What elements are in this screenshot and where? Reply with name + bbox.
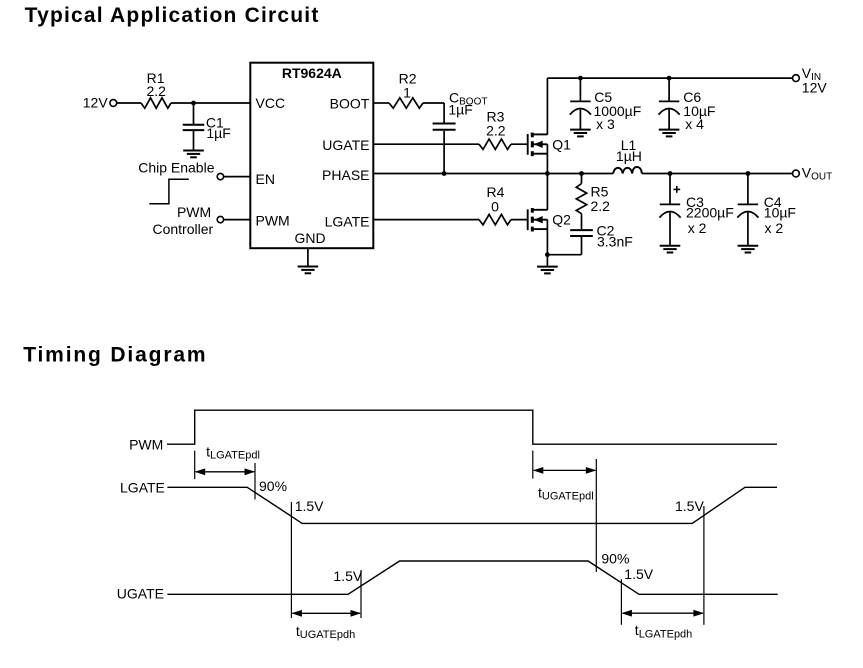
svg-text:2200µF: 2200µF [686,204,734,220]
svg-text:2.2: 2.2 [146,83,166,99]
svg-text:PWM: PWM [256,213,290,229]
svg-text:1.5V: 1.5V [295,498,324,514]
svg-text:1.5V: 1.5V [333,568,362,584]
svg-text:2.2: 2.2 [486,123,506,139]
svg-text:Q1: Q1 [552,136,571,152]
svg-text:1.5V: 1.5V [675,498,704,514]
svg-text:UGATE: UGATE [322,137,369,153]
svg-text:90%: 90% [601,550,629,566]
svg-text:2.2: 2.2 [591,198,611,214]
svg-text:PWM: PWM [129,437,163,453]
svg-text:1: 1 [403,85,411,101]
svg-text:10µF: 10µF [764,204,796,220]
svg-text:1µF: 1µF [206,125,230,141]
svg-text:1µF: 1µF [448,102,472,118]
svg-text:EN: EN [256,171,275,187]
svg-text:12V: 12V [83,95,109,111]
svg-text:RT9624A: RT9624A [282,65,342,81]
svg-text:Timing Diagram: Timing Diagram [23,343,207,366]
svg-text:0: 0 [491,198,499,214]
svg-text:x 2: x 2 [765,220,784,236]
svg-text:3.3nF: 3.3nF [597,234,633,250]
svg-text:PHASE: PHASE [322,167,369,183]
svg-text:Q2: Q2 [552,212,571,228]
svg-text:UGATE: UGATE [117,586,164,602]
svg-text:VCC: VCC [256,95,286,111]
svg-text:1.5V: 1.5V [624,566,653,582]
svg-text:12V: 12V [802,79,828,95]
svg-text:x 3: x 3 [596,116,615,132]
svg-text:LGATE: LGATE [325,214,370,230]
svg-text:x 2: x 2 [688,220,707,236]
svg-text:GND: GND [294,230,325,246]
svg-text:LGATE: LGATE [120,479,165,495]
svg-text:Chip Enable: Chip Enable [138,160,214,176]
svg-text:Controller: Controller [152,221,213,237]
svg-text:90%: 90% [259,478,287,494]
svg-text:x 4: x 4 [685,116,704,132]
svg-text:BOOT: BOOT [330,95,370,111]
svg-text:PWM: PWM [177,204,211,220]
svg-text:Typical Application Circuit: Typical Application Circuit [25,4,320,27]
svg-text:1µH: 1µH [616,148,642,164]
